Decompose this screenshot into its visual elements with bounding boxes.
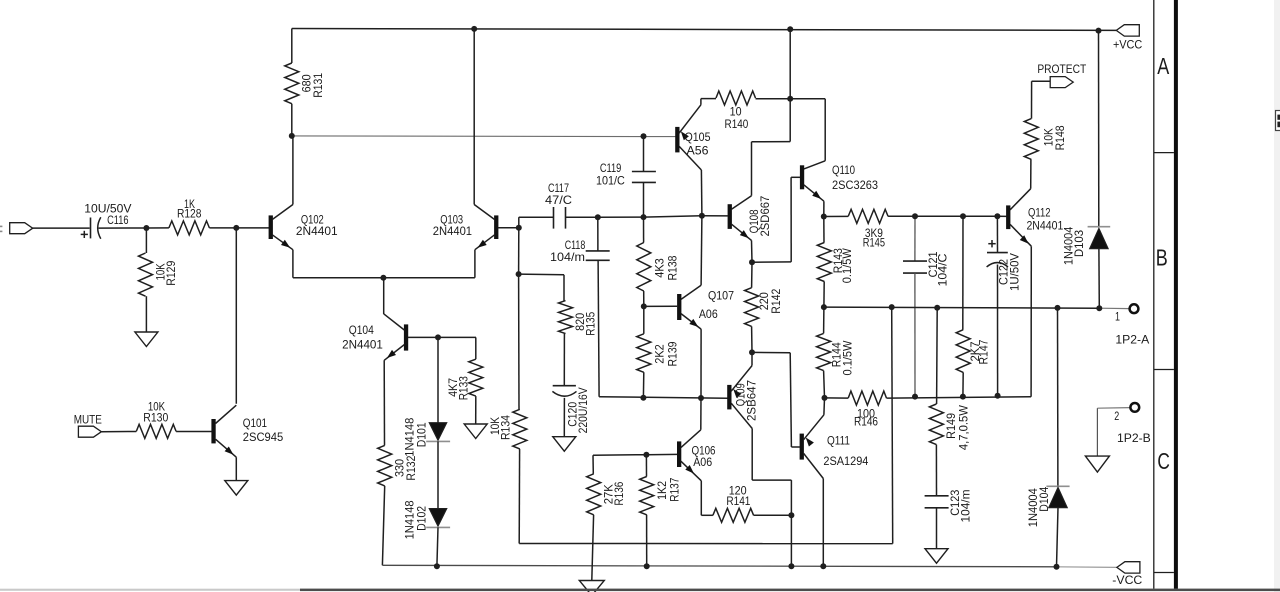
svg-text:R148: R148 — [1054, 125, 1067, 150]
svg-text:2SB647: 2SB647 — [746, 380, 759, 421]
svg-text:R138: R138 — [667, 256, 680, 281]
svg-text:A: A — [1157, 53, 1169, 79]
svg-text:104/m: 104/m — [959, 490, 972, 523]
svg-text:D102: D102 — [416, 506, 429, 531]
svg-text:R142: R142 — [770, 289, 783, 314]
svg-text:R137: R137 — [669, 478, 682, 502]
svg-text:4K3: 4K3 — [654, 258, 667, 278]
svg-text:1: 1 — [1115, 311, 1120, 324]
svg-text:2N4401: 2N4401 — [342, 339, 383, 352]
svg-text:2N4401: 2N4401 — [296, 225, 338, 238]
svg-text:R141: R141 — [726, 495, 750, 508]
svg-text:R145: R145 — [863, 237, 886, 250]
svg-text:D101: D101 — [416, 422, 429, 447]
svg-text:104/m: 104/m — [550, 251, 585, 264]
svg-text:C119: C119 — [600, 162, 622, 175]
svg-text:R139: R139 — [667, 342, 680, 367]
svg-text:4,7,0.5W: 4,7,0.5W — [958, 405, 971, 450]
svg-text:104/C: 104/C — [937, 254, 950, 287]
svg-text:2N4401: 2N4401 — [1026, 219, 1063, 232]
svg-text:Q104: Q104 — [349, 324, 374, 337]
svg-text:Q107: Q107 — [708, 290, 734, 303]
svg-text:R133: R133 — [458, 376, 471, 400]
svg-text:1P2-A: 1P2-A — [1115, 334, 1149, 347]
svg-text:2K2: 2K2 — [654, 344, 667, 364]
svg-text:2SC945: 2SC945 — [243, 431, 284, 444]
svg-text:MUTE: MUTE — [74, 413, 102, 426]
svg-text:R128: R128 — [177, 208, 202, 221]
svg-text:R130: R130 — [143, 412, 168, 425]
svg-text:1U/50V: 1U/50V — [1009, 253, 1022, 291]
svg-text:2SA1294: 2SA1294 — [823, 455, 868, 468]
svg-text:2N4401: 2N4401 — [433, 225, 472, 238]
svg-text:R136: R136 — [613, 482, 626, 506]
svg-text:R135: R135 — [585, 311, 598, 335]
svg-text:C116: C116 — [107, 214, 128, 227]
svg-text:Q111: Q111 — [827, 435, 850, 448]
svg-text:A06: A06 — [699, 308, 718, 321]
svg-text:10: 10 — [730, 105, 742, 118]
svg-text:B: B — [1156, 245, 1168, 271]
svg-text:R140: R140 — [725, 118, 749, 131]
svg-text:Q110: Q110 — [832, 164, 855, 177]
svg-text:0.1/5W: 0.1/5W — [841, 341, 854, 376]
svg-text:2SD667: 2SD667 — [759, 196, 772, 237]
svg-text:R134: R134 — [500, 415, 513, 440]
svg-text:-VCC: -VCC — [1112, 574, 1142, 587]
svg-text:1K2: 1K2 — [656, 481, 669, 500]
svg-text:R149: R149 — [945, 413, 958, 439]
svg-text:2SC3263: 2SC3263 — [832, 179, 878, 192]
svg-text:1P2-B: 1P2-B — [1117, 432, 1151, 445]
svg-text:0.1/5W: 0.1/5W — [841, 248, 854, 283]
svg-text:220: 220 — [758, 292, 771, 310]
svg-text:A56: A56 — [687, 144, 709, 157]
svg-text:2: 2 — [1114, 410, 1119, 423]
svg-text:Q105: Q105 — [685, 131, 711, 144]
svg-text:47/C: 47/C — [545, 194, 572, 207]
svg-text:Q112: Q112 — [1028, 206, 1051, 219]
svg-text:PROTECT: PROTECT — [1037, 63, 1086, 76]
svg-text:220U/16V: 220U/16V — [577, 387, 590, 433]
svg-text:+VCC: +VCC — [1113, 39, 1142, 52]
svg-text:R132: R132 — [405, 456, 418, 481]
svg-text:1N4148: 1N4148 — [403, 500, 416, 539]
svg-text:R147: R147 — [978, 340, 991, 365]
svg-text:C118: C118 — [565, 239, 586, 252]
svg-text:R129: R129 — [165, 261, 178, 286]
svg-text:D103: D103 — [1073, 230, 1086, 257]
svg-text:R146: R146 — [854, 416, 878, 429]
svg-text:1N4148: 1N4148 — [403, 418, 416, 457]
svg-text:101/C: 101/C — [596, 174, 625, 187]
svg-text:D104: D104 — [1038, 486, 1051, 511]
svg-text:Q101: Q101 — [243, 417, 267, 430]
svg-text:C: C — [1157, 448, 1170, 474]
svg-text:R131: R131 — [312, 73, 325, 98]
svg-text:A06: A06 — [693, 456, 712, 469]
